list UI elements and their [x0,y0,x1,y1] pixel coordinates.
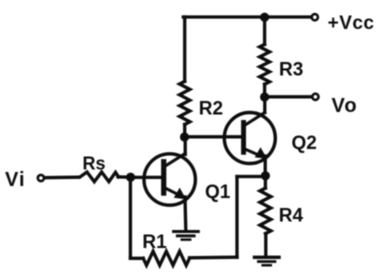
node junction Q1 base / Rs / R1 [126,173,135,182]
ground R4 [253,256,281,259]
svg-text:Rs: Rs [83,153,106,173]
wire Q2 emitter vertical [264,156,267,176]
transistor Q1 circle [144,154,195,205]
svg-text:Q2: Q2 [292,133,317,154]
node junction Vo / collector Q2 [260,92,269,101]
wire feedback vertical left [129,177,132,258]
svg-text:R4: R4 [279,205,304,226]
resistor R4 [260,188,271,234]
resistor R2 [180,81,190,124]
svg-text:R2: R2 [199,99,223,120]
wire feedback vertical right [235,177,238,258]
ground Q1 emitter [172,230,200,233]
transistor Q2 emitter arrowhead [255,147,267,158]
resistor R1 [143,251,189,265]
wire Rs to base node [118,175,131,179]
terminal Vi [38,175,44,181]
svg-text:R3: R3 [279,60,303,81]
wire R3 to Vo node [263,84,266,97]
wire R4 upper [264,176,267,188]
transistor Q1 emitter diagonal [166,189,182,197]
wire feedback horizontal from emitter node [237,175,265,178]
wire bottom right segment [190,256,238,260]
transistor Q1 base bar [161,159,166,196]
wire Q1 emitter to ground [183,197,187,230]
svg-text:+Vcc: +Vcc [328,13,375,34]
terminal Vo [312,94,318,100]
transistor Q1 emitter arrowhead [174,188,186,200]
transistor Q2 base bar [241,120,246,155]
wire Q2 collector [263,97,266,113]
wire input from Vi terminal [45,176,78,180]
transistor Q2 emitter diagonal [246,150,262,157]
wire Q1 collector [184,137,187,155]
svg-text:Q1: Q1 [205,182,231,203]
transistor Q1 collector diagonal [166,154,185,166]
wire Vo output [265,95,312,98]
node junction R2 / Q2 base / Q1 collector [180,132,189,141]
wire R4 to ground [264,234,267,256]
wire R2 to collector node [183,125,186,138]
wire R2 branch upper [183,17,186,81]
resistor R3 [260,44,270,84]
transistor Q2 collector diagonal [246,113,265,125]
wire top rail [183,15,311,18]
svg-text:Vi: Vi [5,169,26,191]
svg-text:Vo: Vo [332,95,358,117]
wire R3 branch upper [263,17,266,44]
wire Q2 base [185,135,242,138]
terminal +Vcc [312,14,318,20]
resistor Rs [80,172,119,182]
wire bottom left segment [130,257,143,260]
svg-text:R1: R1 [142,232,167,253]
node junction top rail / R3 [260,13,269,22]
transistor Q2 circle [224,113,275,164]
wire Q1 base [131,176,162,179]
node junction Q2 emitter / R4 / feedback [261,171,270,180]
